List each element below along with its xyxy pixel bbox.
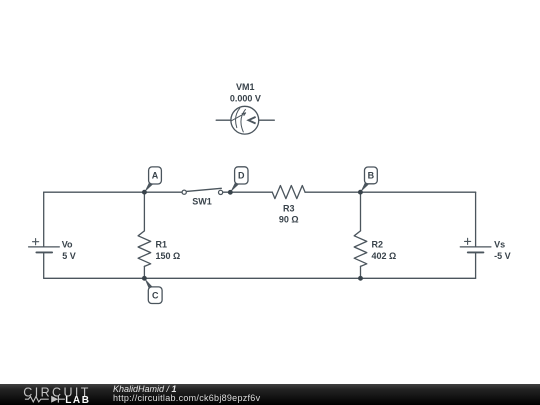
wire: bottom rail	[44, 277, 476, 279]
resistor R3	[272, 186, 305, 199]
junction dot node C	[142, 276, 147, 281]
svg-text:R2: R2	[372, 240, 384, 250]
svg-text:150 Ω: 150 Ω	[156, 251, 181, 261]
node A label box	[144, 167, 161, 192]
wire: R2 bottom to bottom rail	[360, 266, 362, 278]
svg-text:5 V: 5 V	[62, 251, 76, 261]
node C label box	[145, 278, 163, 303]
junction dot node B	[358, 190, 363, 195]
svg-text:Vs: Vs	[494, 240, 505, 250]
svg-text:A: A	[152, 171, 159, 181]
wire: top rail from R3 through node B to right rail	[305, 191, 476, 193]
svg-text:D: D	[238, 171, 245, 181]
footer url line	[113, 394, 260, 403]
junction dot R2 bottom	[358, 276, 363, 281]
svg-text:R3: R3	[283, 203, 295, 213]
junction dot node A	[142, 190, 147, 195]
node B label box	[360, 167, 377, 192]
svg-text:SW1: SW1	[192, 197, 212, 207]
switch SW1	[182, 188, 223, 194]
resistor R2	[354, 231, 367, 267]
voltage source Vs (right battery)	[460, 192, 491, 278]
svg-text:90 Ω: 90 Ω	[279, 215, 299, 225]
svg-text:0.000 V: 0.000 V	[230, 93, 261, 103]
svg-text:LAB: LAB	[65, 395, 90, 405]
wire: top rail from switch to R3	[223, 191, 272, 193]
junction dot node D	[228, 190, 233, 195]
node D label box	[230, 167, 248, 193]
svg-text:C: C	[152, 291, 159, 301]
resistor R1	[138, 231, 151, 267]
CircuitLab logo	[0, 384, 100, 405]
svg-text:R1: R1	[156, 240, 168, 250]
svg-text:Vo: Vo	[62, 240, 73, 250]
voltage source Vo (left battery)	[29, 192, 60, 278]
footer bar	[0, 384, 540, 405]
svg-text:-5 V: -5 V	[494, 251, 511, 261]
svg-text:VM1: VM1	[236, 82, 255, 92]
svg-text:402 Ω: 402 Ω	[372, 251, 397, 261]
wire: node A to R1 top	[143, 192, 145, 231]
voltmeter VM1	[216, 106, 274, 134]
wire: top rail left (Vo to switch)	[44, 191, 182, 193]
footer author line	[113, 385, 177, 394]
svg-text:B: B	[368, 170, 375, 180]
wire: R1 bottom to bottom rail	[143, 266, 145, 278]
wire: node B to R2 top	[360, 192, 362, 231]
